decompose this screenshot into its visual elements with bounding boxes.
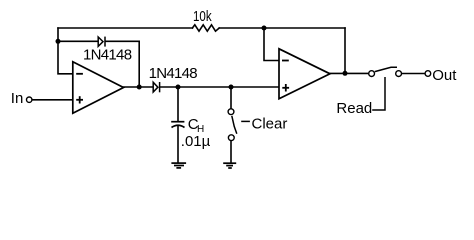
- svg-text:1N4148: 1N4148: [149, 65, 198, 82]
- svg-text:Read: Read: [336, 100, 372, 117]
- svg-text:Out: Out: [432, 67, 457, 84]
- svg-text:In: In: [11, 90, 24, 107]
- svg-text:10k: 10k: [193, 8, 212, 25]
- svg-text:Clear: Clear: [252, 116, 288, 133]
- svg-text:.01µ: .01µ: [181, 133, 211, 150]
- svg-text:1N4148: 1N4148: [83, 46, 132, 63]
